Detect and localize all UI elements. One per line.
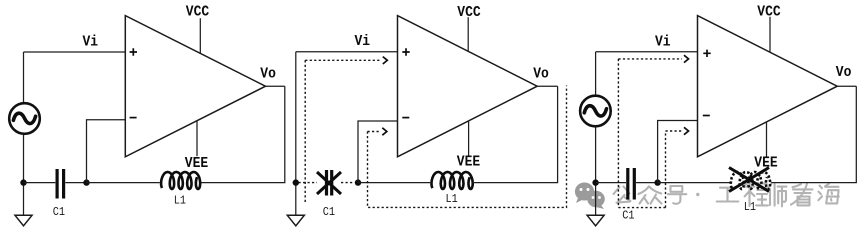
wire input vertical upper: [23, 52, 25, 104]
svg-text:VCC: VCC: [757, 4, 780, 21]
wire rail L1 to output corner c3: [771, 86, 856, 182]
wire C1 to node: [65, 182, 86, 184]
wire Vi input horizontal: [24, 51, 126, 53]
VEE stub c3: [766, 122, 768, 157]
svg-text:Vi: Vi: [655, 34, 671, 51]
svg-text:L1: L1: [446, 193, 459, 206]
watermark wechat icon: [575, 183, 605, 210]
op-amp U3: [698, 16, 838, 157]
dashed signal path B c2 arrow horizontal: [368, 131, 381, 133]
crossed capacitor C1 c2 plates: [327, 170, 332, 196]
inductor L1 c2: [432, 172, 473, 189]
node dot feedback c2: [355, 179, 361, 185]
plus sign U2: [402, 48, 409, 55]
svg-text:Vo: Vo: [836, 65, 852, 82]
svg-text:Vo: Vo: [533, 66, 549, 83]
wire feedback to minus c3: [658, 121, 698, 183]
minus sign U3: [703, 115, 710, 117]
dashed signal path B c2 loop: [368, 86, 567, 208]
wire Vi input horizontal c3: [596, 51, 698, 53]
arrowhead A c3: [684, 55, 689, 62]
wire rail node to L1 c3: [658, 182, 730, 184]
svg-text:C1: C1: [622, 210, 635, 223]
svg-text:L1: L1: [744, 201, 757, 214]
dashed signal path c3 left vertical: [617, 59, 619, 208]
svg-text:Vi: Vi: [355, 33, 371, 50]
plus sign U3: [703, 50, 710, 57]
svg-text:VCC: VCC: [186, 4, 209, 21]
dashed signal path A c2 horizontal arrow: [305, 59, 381, 61]
AC source V3: [580, 96, 611, 127]
svg-text:VEE: VEE: [185, 155, 208, 172]
svg-text:VEE: VEE: [754, 155, 777, 172]
wire input vertical c2: [295, 52, 297, 216]
ground symbol circuit3: [587, 215, 604, 226]
wire output from apex: [266, 85, 285, 87]
dashed signal path c3 bottom: [618, 207, 665, 209]
wire output from apex c3: [837, 85, 856, 87]
wire rail to C1 c3: [596, 182, 626, 184]
capacitor C1 c3 plates: [628, 168, 635, 200]
dashed signal path A c2 vertical: [304, 60, 306, 203]
op-amp U2: [398, 16, 538, 157]
wire input vertical lower: [23, 134, 25, 216]
svg-text:VEE: VEE: [457, 154, 480, 171]
arrowhead A c2: [383, 57, 388, 64]
wire rail node to L1: [87, 182, 160, 184]
dashed signal path A c3 horizontal arrow: [618, 58, 682, 60]
wire feedback to minus c2: [358, 121, 398, 183]
wire rail node to L1 c2: [358, 182, 430, 184]
node dot feedback c3: [654, 179, 660, 185]
dashed lead C1 right c2: [341, 182, 355, 184]
dashed signal path B c3 arrow horizontal: [666, 130, 683, 132]
node dot feedback: [83, 179, 89, 185]
svg-text:L1: L1: [174, 195, 187, 208]
VCC stub circuit1: [199, 18, 201, 53]
svg-text:C1: C1: [323, 206, 336, 219]
VEE stub circuit1: [196, 121, 198, 156]
arrowhead B c2: [382, 128, 387, 135]
AC source V1: [9, 103, 40, 134]
node dot source/C1: [20, 179, 26, 185]
cross X over L1 c3: [729, 168, 769, 192]
wire input vertical lower c3: [595, 127, 597, 216]
crossed inductor L1 c3 dashed coil: [731, 172, 770, 189]
svg-text:Vi: Vi: [83, 34, 99, 51]
wire rail L1 to output corner c2: [472, 86, 558, 182]
wire Vi input horizontal c2: [296, 51, 398, 53]
inductor L1: [161, 172, 200, 189]
svg-text:C1: C1: [53, 206, 66, 219]
wire rail to C1: [24, 182, 56, 184]
dashed lead C1 left c2: [299, 182, 318, 184]
capacitor C1 plates: [57, 169, 64, 199]
wire C1 to node c3: [636, 182, 658, 184]
ground symbol circuit1: [15, 215, 32, 226]
cross X over C1 c2: [317, 172, 341, 194]
VCC stub c3: [769, 17, 771, 52]
ground symbol circuit2: [287, 215, 304, 226]
op-amp U1: [125, 16, 265, 157]
watermark text 公众号·工程师看海: [614, 183, 839, 207]
plus sign U1: [130, 48, 137, 55]
wire feedback to minus input: [87, 120, 126, 183]
wire input vertical upper c3: [595, 52, 597, 96]
dashed signal path c3 right vertical: [665, 131, 667, 208]
svg-text:VCC: VCC: [457, 4, 480, 21]
wire rail L1 to output corner: [202, 86, 285, 182]
minus sign U1: [130, 117, 137, 119]
arrowhead B c3: [684, 127, 689, 134]
node dot input c2: [293, 179, 299, 185]
VCC stub c2: [467, 17, 469, 51]
VEE stub c2: [468, 121, 470, 156]
node dot source c3: [592, 179, 598, 185]
minus sign U2: [402, 117, 409, 119]
wire output from apex c2: [537, 85, 557, 87]
svg-text:Vo: Vo: [260, 66, 276, 83]
